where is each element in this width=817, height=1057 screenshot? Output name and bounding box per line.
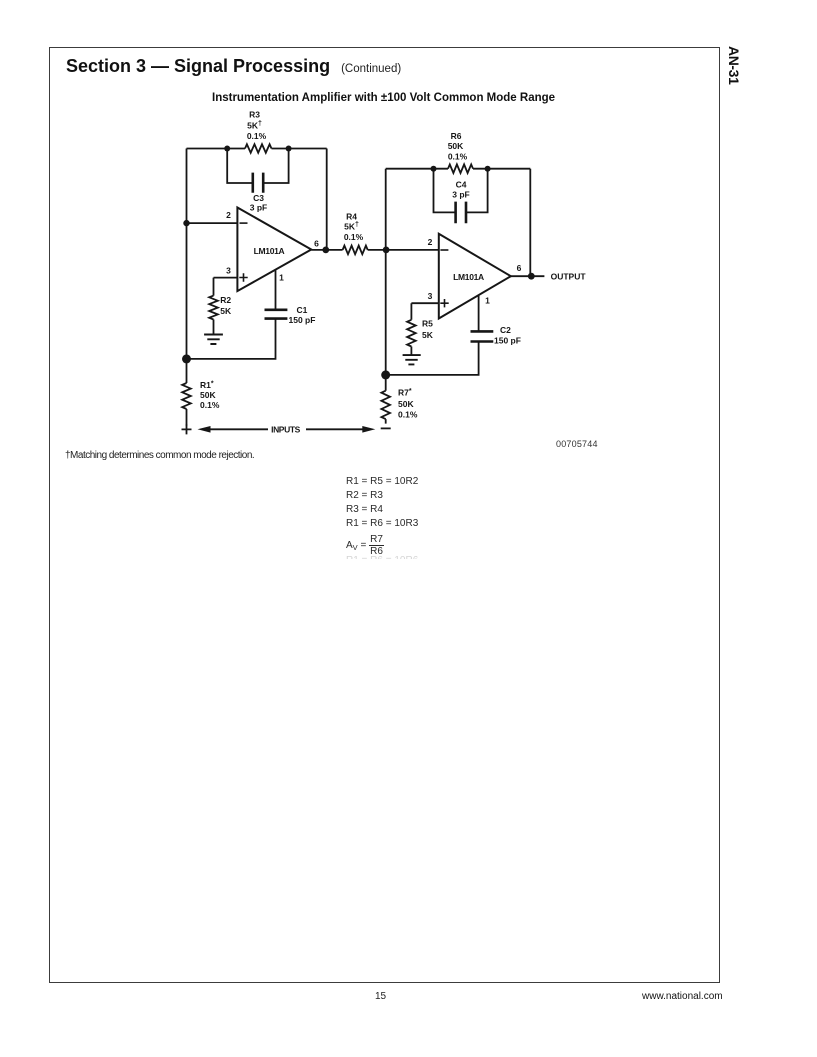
svg-text:0.1%: 0.1% xyxy=(448,152,468,162)
svg-text:R5: R5 xyxy=(422,318,433,328)
svg-text:2: 2 xyxy=(226,210,231,220)
svg-text:50K: 50K xyxy=(398,399,414,409)
svg-text:R2: R2 xyxy=(220,295,231,305)
svg-text:C4: C4 xyxy=(456,180,467,190)
svg-text:5K: 5K xyxy=(220,306,232,316)
svg-text:150 pF: 150 pF xyxy=(289,315,316,325)
svg-text:LM101A: LM101A xyxy=(453,272,484,282)
svg-text:0.1%: 0.1% xyxy=(398,409,418,419)
svg-text:OUTPUT: OUTPUT xyxy=(551,271,587,281)
svg-text:0.1%: 0.1% xyxy=(200,400,220,410)
svg-text:R3: R3 xyxy=(249,110,260,120)
svg-text:0.1%: 0.1% xyxy=(344,232,364,242)
svg-text:R4: R4 xyxy=(346,212,357,222)
svg-text:5K†: 5K† xyxy=(247,121,262,131)
svg-text:3 pF: 3 pF xyxy=(250,203,267,213)
svg-text:5K: 5K xyxy=(422,330,434,340)
svg-text:C1: C1 xyxy=(297,305,308,315)
svg-text:2: 2 xyxy=(428,237,433,247)
svg-text:LM101A: LM101A xyxy=(254,246,285,256)
svg-text:3: 3 xyxy=(428,291,433,301)
svg-text:50K: 50K xyxy=(448,141,464,151)
svg-text:5K†: 5K† xyxy=(344,222,359,232)
svg-text:3 pF: 3 pF xyxy=(452,190,469,200)
svg-text:R1*: R1* xyxy=(200,380,214,390)
svg-text:C3: C3 xyxy=(253,193,264,203)
svg-text:6: 6 xyxy=(517,263,522,273)
svg-text:1: 1 xyxy=(279,273,284,283)
svg-text:6: 6 xyxy=(314,238,319,248)
svg-text:150 pF: 150 pF xyxy=(494,336,521,346)
svg-text:0.1%: 0.1% xyxy=(247,131,267,141)
svg-text:R6: R6 xyxy=(451,131,462,141)
svg-text:R7*: R7* xyxy=(398,388,412,398)
svg-text:3: 3 xyxy=(226,266,231,276)
svg-text:1: 1 xyxy=(485,296,490,306)
svg-text:INPUTS: INPUTS xyxy=(271,425,301,435)
svg-text:C2: C2 xyxy=(500,325,511,335)
svg-text:50K: 50K xyxy=(200,390,216,400)
